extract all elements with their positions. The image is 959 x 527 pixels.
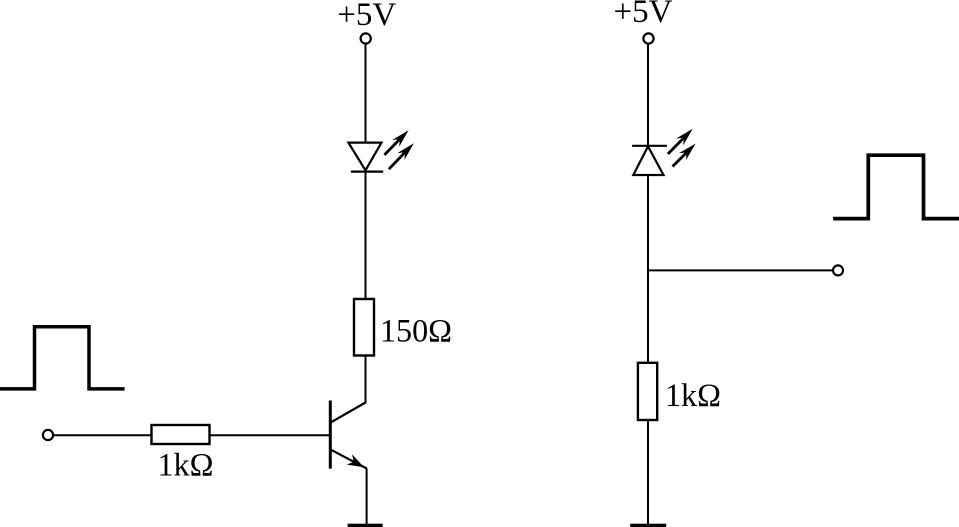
transistor Q1 collector lead (331, 403, 366, 423)
resistor R2 body 1kΩ (left) (152, 425, 210, 444)
ground (right) (630, 524, 666, 527)
power terminal (right) (643, 33, 653, 43)
wire: +5V terminal to LED anode (left) (365, 44, 367, 144)
LED D1 cathode bar (left) (351, 171, 383, 173)
ground (left) (348, 524, 383, 527)
svg-text:+5V: +5V (337, 0, 396, 33)
resistor R3 body 1kΩ (right) (638, 363, 657, 420)
wire: +5V terminal to LED cathode bar (right) (647, 44, 649, 146)
svg-text:1kΩ: 1kΩ (158, 448, 214, 484)
wire: R3 to ground (right) (647, 420, 649, 524)
LED D2 triangle (right) (633, 146, 663, 175)
resistor R1 body 150Ω (354, 299, 374, 356)
LED D2 cathode bar (right) (632, 145, 667, 147)
transistor Q1 emitter lead with arrow (331, 450, 367, 469)
input terminal (left) (43, 430, 53, 440)
LED D1 light arrow 1 (left) (384, 130, 408, 155)
wire: R1 to collector junction (365, 356, 367, 404)
wire: R2 to base (210, 434, 330, 436)
LED D2 light arrow 1 (right) (668, 129, 693, 154)
LED D2 light arrow 2 (right) (673, 144, 696, 167)
LED D1 triangle (left) (348, 143, 381, 171)
wire: LED cathode to resistor R1 (left) (365, 172, 367, 299)
output terminal (right) (833, 265, 843, 275)
svg-text:+5V: +5V (614, 0, 673, 30)
power terminal (left) (361, 33, 371, 43)
wire: emitter to ground (left) (366, 469, 368, 524)
input pulse waveform (left) (0, 327, 125, 389)
transistor Q1 base bar (329, 401, 332, 469)
wire: junction to output terminal (right) (648, 269, 833, 271)
svg-text:150Ω: 150Ω (380, 314, 452, 350)
LED D1 light arrow 2 (left) (389, 143, 414, 169)
svg-text:1kΩ: 1kΩ (665, 378, 721, 414)
wire: LED anode to output node (right) (647, 175, 649, 363)
output pulse waveform (right) (833, 155, 959, 218)
wire: input terminal to resistor R2 (53, 434, 152, 436)
